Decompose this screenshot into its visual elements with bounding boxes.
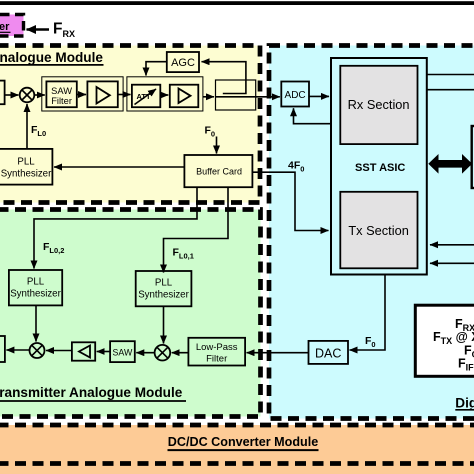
block: PLL Synthesizer Tx1 (right) [136,271,192,306]
svg-text:Synthesizer: Synthesizer [1,169,52,180]
svg-text:Digital Module: Digital Module [455,396,474,411]
wire: Tx control arrows into ASIC [430,244,474,246]
svg-text:Transmitter Analogue Module: Transmitter Analogue Module [0,385,183,400]
module: Transmitter Analogue Module (green region) [0,210,261,417]
wire: ASIC clock to ADC [294,108,332,123]
svg-text:AGC: AGC [171,57,195,69]
block: SST ASIC [331,58,427,275]
wire: Rx data lines to right edge [427,74,474,76]
block: Rx Section [340,66,417,144]
wire: SAW to amplifier A3 [97,351,110,353]
svg-text:Rx Section: Rx Section [348,97,410,112]
wire: PLL Tx2 to mixer M3 [35,305,37,341]
wire: ATT to amplifier A2 [160,94,168,96]
wire: Buffer Card to Tx PLL 1 (FL0,1) [164,187,229,272]
wire: mixer M3 to output box [6,349,29,351]
block: Buffer Card [184,155,252,187]
module: Receiver Analogue Module (yellow region) [0,46,260,203]
svg-text:Filter: Filter [206,354,227,365]
block: PLL Synthesizer (receiver) [0,149,52,185]
wire: coupler output to ADC [256,96,280,98]
block: output box (cut off at left edge) [0,336,5,362]
svg-text:PLL: PLL [17,157,35,168]
wire: Buffer Card to Tx PLL 2 (FL0,2) [34,187,197,268]
svg-text:SAW: SAW [113,348,133,358]
amplifier A2 [170,85,199,108]
svg-text:SAW: SAW [51,86,72,96]
wire: thick bidirectional bus arrow [428,154,472,174]
mixer M1 (receiver) [20,88,35,103]
wire: amplifier A3 to mixer M3 [46,350,72,352]
attenuator ATT (variable) [132,85,160,108]
block: Low-Pass Filter [188,338,245,366]
svg-text:Low-Pass: Low-Pass [196,342,238,353]
wire: Buffer Card 4F0 to SST ASIC [252,160,328,231]
wire: ASIC F0 output to DAC [350,275,386,351]
wire: stage1 to attenuator [118,94,131,96]
block: AGC [167,52,199,72]
label: Transmitter Analogue Module title [0,385,186,401]
block: DAC [309,341,349,364]
label: Receiver Analogue Module title [0,50,104,65]
svg-text:Synthesizer: Synthesizer [10,289,61,300]
wire: SAW filter to amplifier A1 [77,94,86,96]
svg-text:PLL: PLL [155,278,173,289]
wire: mixer M1 to SAW filter stage [34,94,45,96]
wire: F0 input into Buffer Card [205,124,217,153]
module: DC/DC Converter Module (orange region) [0,425,474,474]
svg-text:Receiver Analogue Module: Receiver Analogue Module [0,50,103,65]
block: box at right edge (cut off) [472,126,474,188]
svg-text:DC/DC Converter Module: DC/DC Converter Module [168,435,318,449]
wire: ADC to SST ASIC [309,95,329,97]
amplifier A3 (left-pointing) [72,342,95,360]
label: Digital Module title [455,396,474,411]
block: frequency legend box [415,305,474,376]
wire: PLL to mixer M1, label FL0 [27,104,46,149]
wire: coupler tap to AGC [202,62,246,94]
block: directional coupler [216,80,256,110]
module: Digital Module (cyan region) [269,46,474,419]
mixer M2 (transmitter) [155,345,171,361]
svg-text:Tx Section: Tx Section [348,223,408,238]
wire: FRX input arrow into duplexer [27,21,75,40]
label: DC/DC Converter Module title [168,435,319,450]
block: Tx Section [340,192,417,268]
block: shielded stage 1 outer box [42,77,123,111]
block: SAW Filter [46,81,76,107]
svg-text:ADC: ADC [285,90,306,101]
wire: AGC control to ATT stage [146,62,167,76]
svg-text:Filter: Filter [51,96,72,106]
wire: PLL Tx1 to mixer M2 [163,306,165,343]
wire: Buffer Card to PLL synthesizer [54,166,184,168]
mixer M3 (transmitter output mixer) [30,343,45,358]
wire: Low-Pass Filter to mixer M2 [172,352,189,354]
block: input box (cut off at left edge) [0,81,5,105]
svg-text:Buffer Card: Buffer Card [196,167,242,177]
svg-text:PLL: PLL [27,277,45,288]
svg-text:SST ASIC: SST ASIC [355,162,405,174]
svg-text:DAC: DAC [315,347,341,361]
block: SAW filter (transmitter) [110,341,135,362]
block: shielded stage 2 outer box [127,77,203,111]
svg-text:Synthesizer: Synthesizer [138,290,189,301]
block: ADC [281,82,309,107]
top border line of figure [0,1,474,5]
wire: input box to mixer M1 [5,94,19,96]
module: Duplexer (pink box, cut off at left) [0,15,24,37]
wire: stage2 to coupler [203,96,214,98]
amplifier A1 [87,81,117,107]
wire: mixer M2 to SAW [136,352,154,354]
svg-text:er: er [0,21,10,33]
block: PLL Synthesizer Tx2 (left) [9,270,62,305]
wire: DAC to Low-Pass Filter [247,352,309,354]
